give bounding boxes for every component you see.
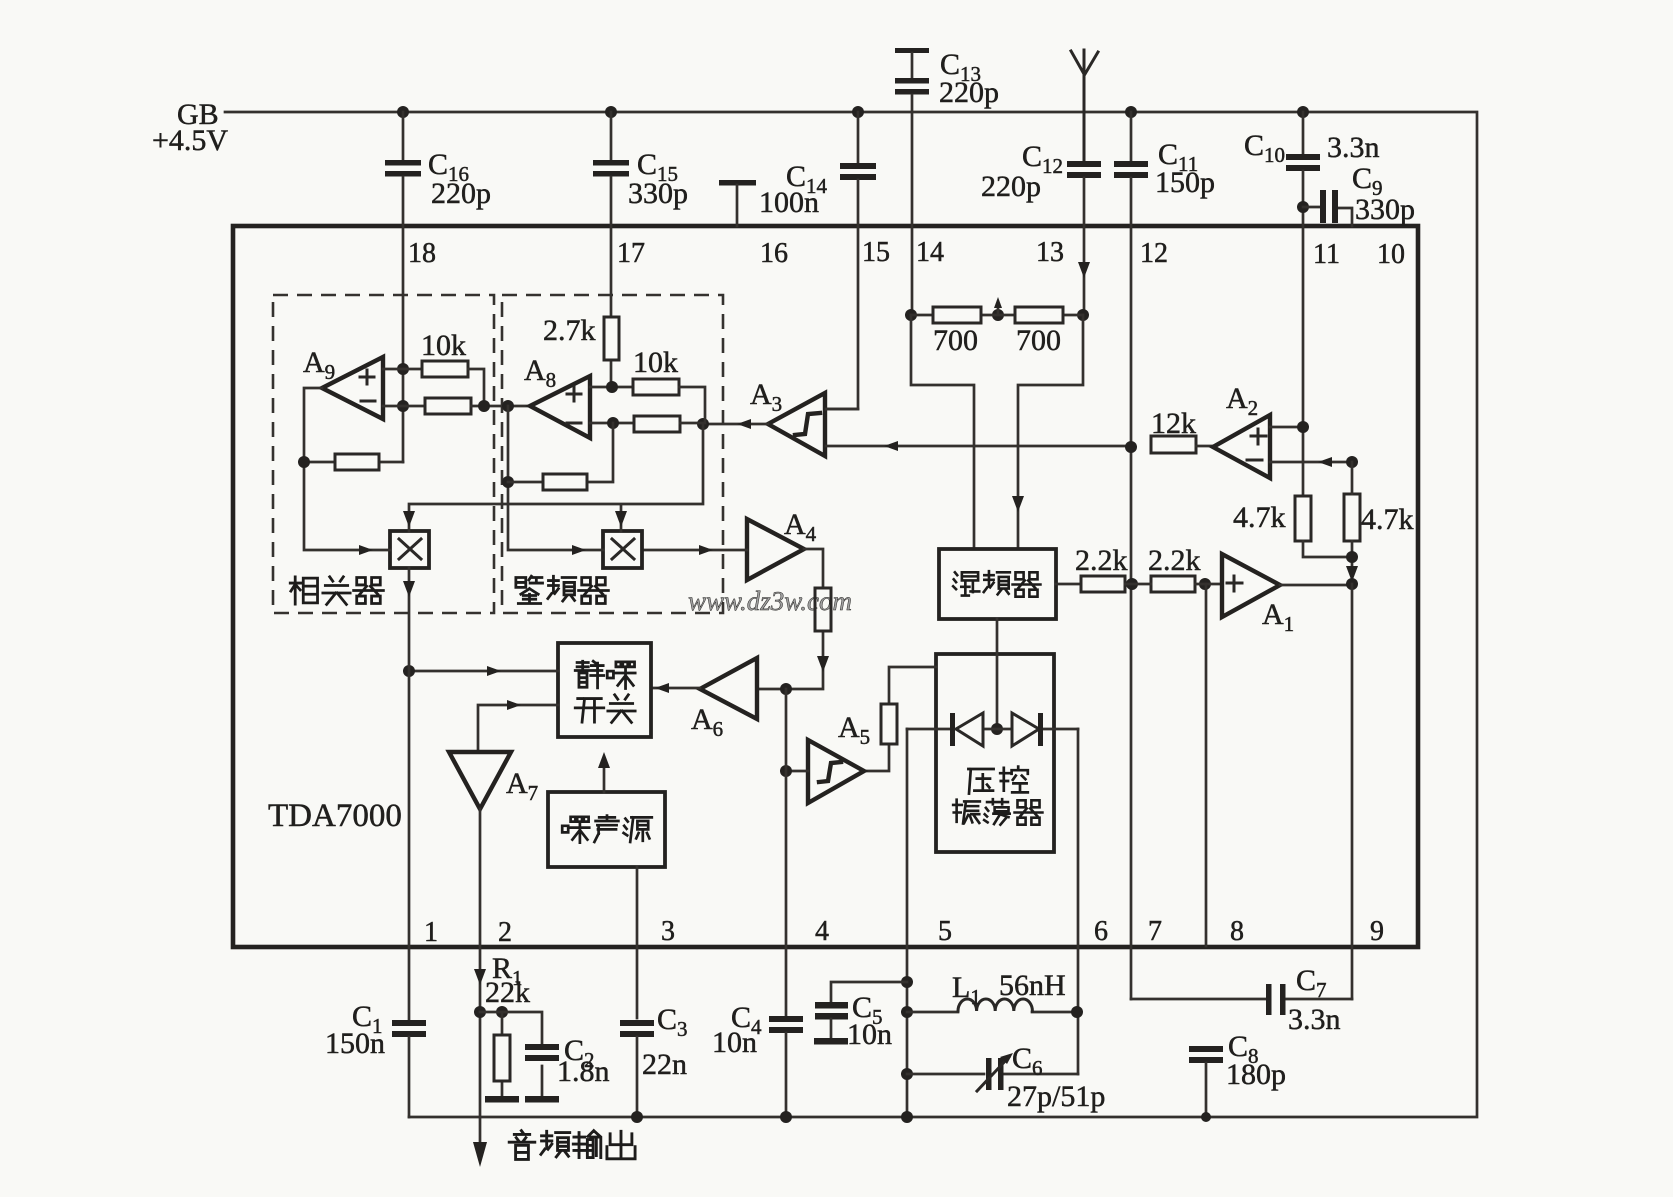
svg-text:330p: 330p — [1355, 193, 1415, 226]
svg-text:11: 11 — [1313, 239, 1340, 270]
svg-text:150p: 150p — [1155, 166, 1215, 199]
svg-text:18: 18 — [408, 238, 436, 269]
svg-text:330p: 330p — [628, 177, 688, 210]
svg-text:27p/51p: 27p/51p — [1007, 1080, 1105, 1113]
svg-text:A4: A4 — [784, 508, 817, 546]
svg-text:10n: 10n — [712, 1026, 757, 1059]
svg-text:A5: A5 — [838, 711, 870, 749]
svg-text:C6: C6 — [1012, 1042, 1043, 1080]
svg-text:2.2k: 2.2k — [1075, 544, 1128, 577]
svg-text:13: 13 — [1036, 237, 1064, 268]
svg-text:10k: 10k — [633, 346, 678, 379]
svg-text:22n: 22n — [642, 1048, 687, 1081]
svg-text:www.dz3w.com: www.dz3w.com — [688, 586, 852, 616]
svg-text:22k: 22k — [485, 976, 530, 1009]
svg-text:17: 17 — [617, 238, 645, 269]
svg-text:C7: C7 — [1296, 964, 1327, 1002]
svg-text:4: 4 — [815, 916, 829, 947]
svg-text:220p: 220p — [431, 177, 491, 210]
svg-text:10: 10 — [1377, 239, 1405, 270]
svg-text:3.3n: 3.3n — [1288, 1003, 1341, 1036]
svg-text:L1: L1 — [952, 971, 981, 1009]
svg-text:+4.5V: +4.5V — [152, 124, 228, 157]
svg-text:A1: A1 — [1262, 598, 1294, 636]
svg-text:700: 700 — [1016, 324, 1061, 357]
svg-text:10k: 10k — [421, 329, 466, 362]
svg-text:3: 3 — [661, 916, 675, 947]
svg-text:220p: 220p — [981, 170, 1041, 203]
svg-text:3.3n: 3.3n — [1327, 131, 1380, 164]
svg-text:12: 12 — [1140, 238, 1168, 269]
svg-text:16: 16 — [760, 238, 788, 269]
svg-text:7: 7 — [1148, 916, 1162, 947]
svg-text:A7: A7 — [506, 767, 538, 805]
svg-text:8: 8 — [1230, 916, 1244, 947]
svg-text:C10: C10 — [1244, 129, 1285, 167]
svg-text:12k: 12k — [1151, 407, 1196, 440]
svg-text:100n: 100n — [759, 186, 819, 219]
svg-text:150n: 150n — [325, 1027, 385, 1060]
svg-text:5: 5 — [938, 916, 952, 947]
svg-text:56nH: 56nH — [999, 969, 1066, 1002]
svg-text:4.7k: 4.7k — [1233, 501, 1286, 534]
svg-text:4.7k: 4.7k — [1361, 503, 1414, 536]
svg-text:14: 14 — [916, 237, 944, 268]
svg-text:2.7k: 2.7k — [543, 314, 596, 347]
svg-text:2.2k: 2.2k — [1148, 544, 1201, 577]
svg-text:A9: A9 — [303, 346, 335, 384]
svg-text:700: 700 — [933, 324, 978, 357]
svg-text:2: 2 — [498, 917, 512, 948]
svg-text:A8: A8 — [524, 354, 556, 392]
svg-text:220p: 220p — [939, 76, 999, 109]
svg-text:10n: 10n — [847, 1018, 892, 1051]
svg-text:A6: A6 — [691, 703, 723, 741]
svg-text:1: 1 — [424, 917, 438, 948]
svg-text:A2: A2 — [1226, 382, 1258, 420]
svg-text:180p: 180p — [1226, 1058, 1286, 1091]
svg-text:6: 6 — [1094, 916, 1108, 947]
svg-text:9: 9 — [1370, 916, 1384, 947]
svg-text:15: 15 — [862, 237, 890, 268]
svg-text:C3: C3 — [657, 1003, 688, 1041]
svg-text:A3: A3 — [750, 378, 782, 416]
svg-text:1.8n: 1.8n — [557, 1055, 610, 1088]
svg-text:TDA7000: TDA7000 — [268, 798, 402, 834]
